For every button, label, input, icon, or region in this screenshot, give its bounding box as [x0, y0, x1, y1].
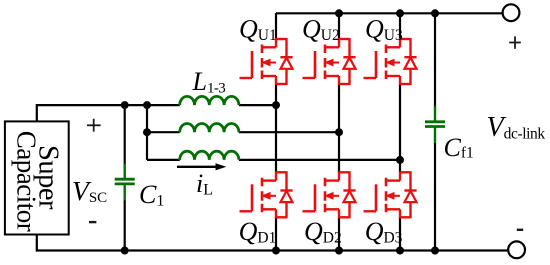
svg-text:Capacitor: Capacitor — [12, 131, 42, 232]
